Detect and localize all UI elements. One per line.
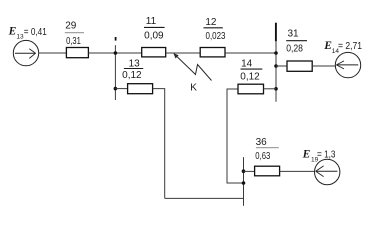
resistor R11	[142, 48, 166, 57]
node A junction dot	[114, 51, 118, 55]
svg-text:12: 12	[205, 17, 217, 28]
svg-text:0,31: 0,31	[66, 36, 81, 47]
svg-text:11: 11	[146, 16, 157, 27]
label E19 = 1,3	[302, 149, 336, 164]
label R12 12/0,023	[204, 17, 226, 42]
wire R31 to source E14	[312, 65, 336, 67]
node B junction dot	[114, 87, 118, 91]
svg-text:14: 14	[241, 59, 253, 70]
source E14	[335, 52, 360, 77]
node F junction dot	[242, 169, 246, 173]
label E14 = 2,71	[323, 40, 362, 55]
source E19	[315, 159, 340, 184]
left bus bar tick	[115, 37, 117, 41]
wire source E13 to R29	[39, 52, 67, 54]
svg-text:E: E	[8, 26, 17, 38]
svg-text:0,63: 0,63	[255, 151, 270, 162]
label R36 36/0,63	[255, 137, 279, 162]
wire bottom horizontal R13 branch to bottom bus	[165, 197, 244, 199]
wire R29 to node A	[88, 52, 115, 54]
resistor R36	[255, 166, 280, 176]
resistor R31	[287, 61, 312, 71]
wire R14 to right bus	[264, 88, 277, 90]
node D junction dot	[274, 64, 278, 68]
svg-text:0,12: 0,12	[122, 70, 142, 81]
svg-text:= 0,41: = 0,41	[24, 27, 47, 38]
fault arrow K	[173, 53, 211, 80]
svg-text:E: E	[302, 149, 311, 161]
wire node B to R13	[115, 88, 127, 90]
label R13 13/0,12	[122, 59, 143, 81]
svg-text:0,28: 0,28	[286, 44, 303, 55]
bottom bus vertical wire	[243, 157, 245, 206]
wire R36 to source E19	[280, 170, 315, 172]
node G junction dot	[242, 181, 246, 185]
right bus vertical wire	[275, 41, 277, 101]
wire bus to R31	[276, 65, 287, 67]
wire bottom bus to R36	[244, 170, 255, 172]
source E13	[13, 40, 38, 65]
wire R12 to right bus	[225, 52, 276, 54]
resistor R13	[128, 84, 153, 94]
svg-text:= 1,3: = 1,3	[317, 149, 336, 160]
left bus vertical wire	[114, 45, 116, 100]
wire R13 right then down to bottom line	[153, 89, 165, 199]
resistor R29	[66, 48, 88, 58]
label R14 14/0,12	[240, 59, 262, 83]
svg-text:36: 36	[256, 137, 268, 148]
svg-text:= 2,71: = 2,71	[338, 41, 362, 52]
svg-text:K: K	[190, 83, 197, 94]
svg-text:31: 31	[287, 28, 299, 39]
resistor R12	[200, 48, 225, 57]
node C junction dot	[274, 51, 278, 55]
label R11 11/0,09	[144, 16, 165, 42]
resistor R14	[238, 84, 264, 94]
wire R14 left down and right to bottom bus	[227, 89, 244, 183]
wire R11 to R12	[166, 52, 201, 54]
label R29 29/0,31	[65, 20, 84, 47]
svg-text:0,12: 0,12	[240, 71, 260, 82]
wire node A to R11	[115, 52, 141, 54]
label R31 31/0,28	[286, 28, 307, 54]
svg-text:0,023: 0,023	[206, 31, 226, 42]
label E13 = 0,41	[8, 26, 48, 41]
node E junction dot	[274, 87, 278, 91]
right bus bar thick segment	[275, 23, 277, 42]
svg-text:0,09: 0,09	[144, 31, 164, 42]
svg-text:29: 29	[65, 20, 77, 31]
